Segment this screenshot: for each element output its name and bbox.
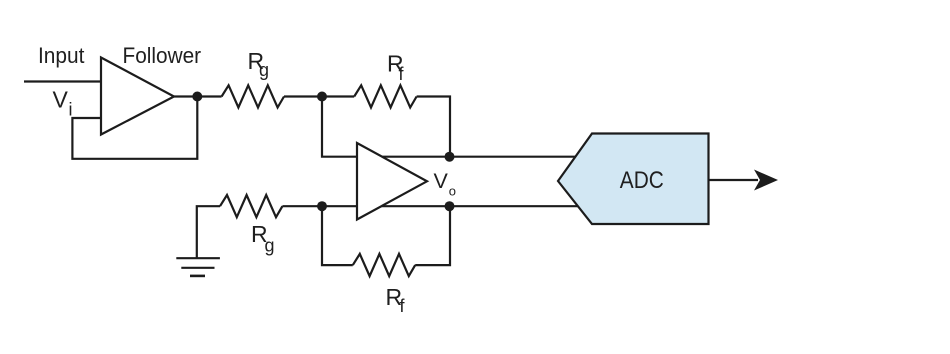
node A dot [317,92,327,102]
label Rf bottom [386,284,406,316]
wire node A down [322,97,578,157]
wire Rg to node A [284,95,354,97]
ADC block [558,134,709,225]
wire follower feedback [72,97,197,159]
resistor Rf top [354,85,416,107]
wire input [24,80,101,82]
wire bottom feedback left [322,206,353,265]
node dot bottom rail left [317,201,327,211]
wire bottom rail [282,205,578,207]
node dot follower output [192,92,202,102]
svg-text:g: g [259,60,269,80]
label Rg bottom [251,221,275,255]
node dot top rail [445,152,455,162]
label Rg top [248,48,270,80]
resistor Rg bottom [220,195,282,217]
svg-text:ADC: ADC [620,167,664,194]
wire Rf to top rail [417,97,450,157]
svg-text:g: g [265,236,275,256]
op-amp U1 follower [101,58,174,135]
resistor Rf bottom [353,254,415,276]
label Vo [434,169,457,198]
svg-text:Input: Input [38,43,84,68]
wire follower output [174,95,222,97]
svg-text:o: o [449,183,456,198]
wire bottom feedback right [415,206,450,265]
wire ADC output [709,179,759,181]
resistor Rg top [222,85,284,107]
label Vi [53,87,73,120]
node dot bottom rail right [445,201,455,211]
svg-text:V: V [434,169,449,193]
svg-text:V: V [53,87,69,113]
label Rf top [387,51,405,84]
svg-text:i: i [69,100,73,120]
ground [176,258,220,276]
svg-text:Follower: Follower [123,43,202,68]
op-amp U2 diff amp [357,143,427,220]
arrowhead output [754,170,778,191]
wire ground branch [197,206,220,258]
